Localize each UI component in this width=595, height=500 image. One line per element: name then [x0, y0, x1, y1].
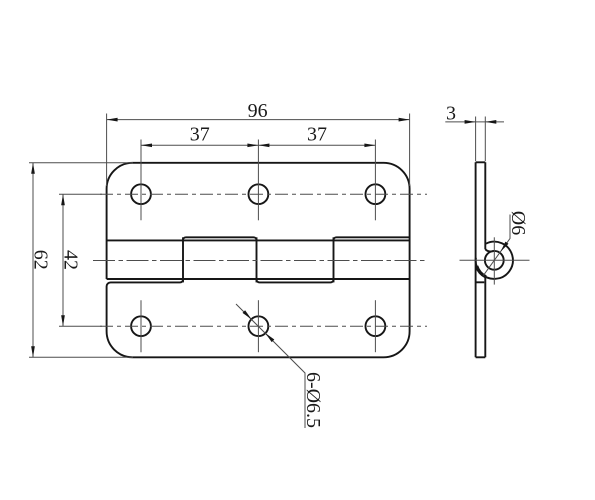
dimension 37 arrow a-left — [141, 143, 152, 147]
vertical centerline hole H2 — [257, 140, 259, 221]
dimension 3 extension left — [475, 117, 477, 162]
vertical centerline hole H4 — [140, 300, 142, 352]
dimension 42 arrow top — [61, 194, 65, 205]
side view leaf right edge lower — [484, 277, 486, 358]
side knuckle horizontal centerline — [460, 259, 530, 261]
horizontal centerline bottom hole row — [100, 325, 427, 327]
dimension 96 extension left — [106, 114, 108, 187]
hinge centerline — [93, 260, 426, 262]
side view leaf right edge upper — [484, 162, 486, 249]
dimension 3 arrow right — [485, 120, 496, 124]
svg-text:62: 62 — [29, 250, 51, 270]
dimension 96 extension right — [409, 114, 411, 187]
hole H5 bottom-middle — [249, 316, 269, 336]
knuckle top tangent line — [107, 239, 410, 241]
top leaf cut edge over knuckle 2 — [183, 237, 257, 240]
top leaf cut edge over knuckle 4 — [334, 237, 410, 240]
curl cut end lower-left — [477, 266, 486, 277]
svg-text:37: 37 — [307, 124, 327, 146]
dimension 96 line — [107, 119, 410, 121]
knuckle curl spiral — [485, 249, 494, 252]
leader d6 arrow — [501, 242, 509, 252]
dimension 42 extension top — [59, 193, 102, 195]
horizontal centerline top hole row — [100, 193, 427, 195]
dimension 42 arrow bottom — [61, 315, 65, 326]
hole H6 bottom-right — [366, 316, 386, 336]
dimension 37 line — [141, 144, 375, 146]
knuckle joint line 1 — [182, 237, 184, 282]
pin hole inner circle (side view) — [485, 251, 504, 270]
hinge leaf outline (front view) — [107, 163, 410, 357]
leader arrow upper — [243, 310, 252, 319]
svg-text:6-Ø6.5: 6-Ø6.5 — [302, 372, 324, 428]
dimension 3 line — [445, 121, 504, 123]
knuckle joint line 3 — [333, 237, 335, 282]
dimension 62 extension top — [29, 162, 133, 164]
dimension 62 extension bottom — [29, 356, 133, 358]
dimension 62 line — [32, 163, 34, 357]
leader line 6-d6.5 — [236, 304, 305, 428]
knuckle outer circle (side view) — [476, 242, 513, 279]
dimension 3 arrow left — [465, 120, 476, 124]
vertical centerline hole H6 — [374, 300, 376, 352]
svg-text:37: 37 — [190, 124, 210, 146]
dimension 42 extension bottom — [59, 325, 102, 327]
side view leaf bottom edge — [476, 356, 486, 358]
svg-text:3: 3 — [446, 102, 456, 124]
dimension 37 arrows middle — [247, 143, 258, 147]
hole H4 bottom-left — [131, 316, 151, 336]
dimension 96 arrow left — [107, 118, 118, 122]
dimension 42 line — [62, 194, 64, 326]
hole H2 top-middle — [249, 184, 269, 204]
hole H1 top-left — [131, 184, 151, 204]
dimension 62 arrow top — [31, 163, 35, 174]
vertical centerline hole H5 — [257, 300, 259, 352]
vertical centerline hole H1 — [140, 140, 142, 221]
knuckle bottom tangent line — [107, 278, 410, 280]
side view bottom leaf edge tick — [476, 281, 485, 283]
leader arrow lower — [265, 333, 274, 342]
hole H3 top-right — [366, 184, 386, 204]
dimension 96 arrow right — [399, 118, 410, 122]
dimension 62 arrow bottom — [31, 346, 35, 357]
dimension 3 extension right — [484, 117, 486, 162]
svg-text:Ø6: Ø6 — [507, 211, 529, 235]
side view leaf top edge — [476, 161, 486, 163]
vertical centerline hole H3 — [374, 140, 376, 221]
side knuckle vertical centerline — [493, 237, 495, 284]
svg-text:96: 96 — [248, 100, 268, 122]
svg-text:42: 42 — [59, 250, 81, 270]
knuckle joint line 2 — [256, 237, 258, 282]
bottom leaf cut edge under knuckle 3 — [257, 279, 334, 282]
side view leaf left edge — [475, 162, 477, 357]
dimension 37 arrow b-right — [364, 143, 375, 147]
leader line d6 — [483, 215, 510, 276]
